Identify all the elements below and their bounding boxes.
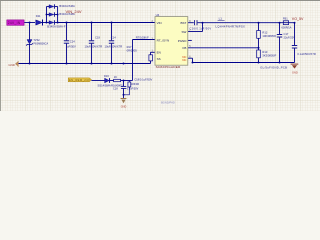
node J18 xyxy=(294,22,296,24)
svg-text:BGND/PAD: BGND/PAD xyxy=(161,101,175,105)
svg-text:C24: C24 xyxy=(70,39,75,43)
wire bank row3 xyxy=(55,22,58,24)
wire divider top lead xyxy=(258,23,260,31)
wire SW riser xyxy=(202,23,204,32)
wire lower cap to gnd xyxy=(123,89,125,99)
capacitor C24 xyxy=(64,39,76,48)
svg-text:D16: D16 xyxy=(104,74,109,78)
svg-text:EN: EN xyxy=(157,51,161,55)
U4 pin numbers xyxy=(152,20,192,59)
svg-text:GND: GND xyxy=(8,63,14,67)
power port GND left xyxy=(8,61,18,67)
svg-text:0.1uF/50V: 0.1uF/50V xyxy=(127,87,139,90)
node J11 xyxy=(91,63,93,65)
svg-text:R17: R17 xyxy=(127,45,132,49)
wire cap C14 leads xyxy=(111,23,113,41)
svg-text:22uF/25V: 22uF/25V xyxy=(284,36,296,40)
resistor R17 EN xyxy=(127,45,153,61)
wire cap C24 leads xyxy=(66,23,68,41)
svg-text:FB: FB xyxy=(183,46,187,50)
node J22 xyxy=(279,62,281,64)
node J15 xyxy=(202,22,204,24)
node J19 xyxy=(192,62,194,64)
svg-text:10uF/50V/X7R: 10uF/50V/X7R xyxy=(85,44,103,48)
svg-text:R26/0R: R26/0R xyxy=(131,83,140,86)
wire bank row2 xyxy=(47,14,50,16)
resistor R2 lower xyxy=(124,81,131,95)
svg-text:C18/0.1uF/50V: C18/0.1uF/50V xyxy=(134,78,152,82)
svg-text:R12: R12 xyxy=(262,31,267,35)
wire port to D11 xyxy=(24,22,35,24)
power ground right xyxy=(291,64,299,74)
wire GND pin drop xyxy=(192,58,194,62)
resistor R12 divider top xyxy=(257,31,277,39)
wire output cap bottom lead xyxy=(294,48,296,62)
svg-text:GND: GND xyxy=(292,70,298,74)
svg-text:B340A/SMA-F: B340A/SMA-F xyxy=(47,25,66,29)
svg-text:600R/1A: 600R/1A xyxy=(281,26,291,30)
wire lower cap lead xyxy=(123,81,125,87)
svg-text:C14: C14 xyxy=(111,36,116,40)
wire divider mid xyxy=(258,38,260,50)
junction dots xyxy=(29,14,296,82)
sheet edge top xyxy=(0,0,320,2)
svg-text:PGND: PGND xyxy=(178,39,188,43)
capacitor C22 output xyxy=(292,46,316,56)
node J6 xyxy=(66,22,68,24)
wire VIN rail xyxy=(58,22,155,24)
capacitor C19 xyxy=(85,36,103,49)
power ground lower xyxy=(121,99,127,109)
port P1 24V_IN xyxy=(7,20,24,25)
sheet edge left xyxy=(0,0,2,111)
wire GND pin stub xyxy=(188,57,193,59)
svg-text:GL/5uF/GND_PCB: GL/5uF/GND_PCB xyxy=(260,66,287,70)
svg-text:RT_/SYN: RT_/SYN xyxy=(157,38,170,42)
diode D12 bank row1 xyxy=(49,4,75,9)
wire PGND stub xyxy=(188,39,192,41)
svg-text:3K3/0805/F: 3K3/0805/F xyxy=(262,54,276,58)
wire EN pin stub xyxy=(151,51,156,53)
wire TVS bottom xyxy=(29,44,31,63)
svg-text:SS14/SMA: SS14/SMA xyxy=(98,84,111,88)
node J23 lower gnd xyxy=(123,94,125,96)
svg-text:RT/100K/F: RT/100K/F xyxy=(136,35,149,39)
svg-text:SC8205GADER: SC8205GADER xyxy=(156,65,181,69)
wire GND rail left xyxy=(18,63,150,65)
wire EN resistor bottom xyxy=(150,61,152,64)
inductor L1 xyxy=(216,16,246,28)
svg-text:R13: R13 xyxy=(262,50,267,54)
op-amp/regulator U4 body xyxy=(155,13,188,65)
capacitor C14 xyxy=(105,36,123,49)
svg-text:VIN_24V: VIN_24V xyxy=(66,9,82,14)
node J2 xyxy=(46,22,48,24)
svg-text:10K/0805/F: 10K/0805/F xyxy=(262,34,276,38)
ferrite bead FB1 xyxy=(281,17,291,30)
svg-text:1uF/50V: 1uF/50V xyxy=(66,44,76,48)
svg-text:C17: C17 xyxy=(284,32,289,36)
resistor R13 divider bottom xyxy=(257,50,277,58)
svg-text:C19: C19 xyxy=(95,36,100,40)
TVS diode D15 xyxy=(26,39,48,46)
resistor R16 lower xyxy=(111,75,123,88)
node J21 xyxy=(258,62,260,64)
svg-text:FB1: FB1 xyxy=(283,17,288,21)
wire lower branch c xyxy=(121,80,133,82)
wire GND rail right xyxy=(193,62,295,64)
wire bank row1 xyxy=(47,6,50,8)
svg-text:10uF/50V/X7R: 10uF/50V/X7R xyxy=(105,44,123,48)
diode D11 xyxy=(36,14,43,25)
wire cap C19 leads xyxy=(91,23,93,41)
node J7 xyxy=(91,22,93,24)
svg-text:BST: BST xyxy=(181,21,187,25)
node J4 xyxy=(57,14,59,16)
svg-text:U4: U4 xyxy=(156,13,160,17)
wire SW stub xyxy=(188,31,203,33)
svg-text:24V_IN: 24V_IN xyxy=(8,21,21,25)
capacitor C17 xyxy=(277,32,296,40)
svg-text:EN_REM_24V: EN_REM_24V xyxy=(69,78,90,82)
wire output cap top lead xyxy=(294,23,296,45)
node J1 xyxy=(29,22,31,24)
wire RT pin net xyxy=(133,39,156,41)
wire BST cap to SW node xyxy=(198,22,295,24)
node J9 xyxy=(29,63,31,65)
wire FB rail xyxy=(188,47,259,49)
wire C17 top lead xyxy=(279,23,281,34)
wire BST stub xyxy=(188,22,194,24)
svg-text:0R/0805: 0R/0805 xyxy=(127,49,138,53)
node J16 xyxy=(258,22,260,24)
node J3 xyxy=(46,14,48,16)
diode D16 lower xyxy=(98,74,111,88)
wire TVS top xyxy=(29,23,31,40)
wire bank right rail xyxy=(57,7,59,23)
wire RT vertical xyxy=(132,40,134,81)
svg-text:P6SMB36CA: P6SMB36CA xyxy=(33,42,48,45)
svg-text:SS: SS xyxy=(157,57,161,61)
svg-text:SW: SW xyxy=(182,30,187,34)
wire divider bottom lead xyxy=(258,58,260,63)
capacitor C16 bootstrap xyxy=(190,20,212,30)
svg-text:D11: D11 xyxy=(36,14,41,18)
sheet background xyxy=(0,0,320,111)
svg-text:1K: 1K xyxy=(114,75,117,79)
svg-text:L1: L1 xyxy=(219,16,223,20)
svg-text:GND: GND xyxy=(121,106,127,109)
capacitor C21 lower xyxy=(121,78,152,91)
wire bank left rail xyxy=(46,7,48,23)
node J12 xyxy=(111,63,113,65)
harness entry EN (yellow) xyxy=(68,78,91,82)
svg-text:LQH44PN4R7MPSX: LQH44PN4R7MPSX xyxy=(216,25,246,29)
node J20 xyxy=(258,47,260,49)
wire D11 cathode to bank xyxy=(43,22,49,24)
wire lower branch a xyxy=(91,80,104,82)
svg-text:B340A/SMA: B340A/SMA xyxy=(59,4,75,8)
node J5 xyxy=(57,22,59,24)
node J13 xyxy=(123,63,125,65)
wire lower branch b xyxy=(110,80,114,82)
svg-text:NC: NC xyxy=(182,58,186,62)
svg-text:C18: C18 xyxy=(113,87,118,90)
svg-text:VO_5V: VO_5V xyxy=(292,17,304,21)
node J17 xyxy=(279,22,281,24)
node J10 xyxy=(66,63,68,65)
diode D14 bank row3 xyxy=(47,20,66,28)
wire C17 bottom lead xyxy=(279,37,281,62)
diode D13 bank row2 xyxy=(49,12,75,17)
node J8 xyxy=(111,22,113,24)
svg-text:C16/0.1uF/50V: C16/0.1uF/50V xyxy=(190,26,212,30)
svg-text:VIN: VIN xyxy=(157,21,162,25)
wire EN resistor top xyxy=(150,52,152,55)
svg-text:0.1uF/50V/X7R: 0.1uF/50V/X7R xyxy=(297,52,315,56)
node J14 xyxy=(123,80,125,82)
